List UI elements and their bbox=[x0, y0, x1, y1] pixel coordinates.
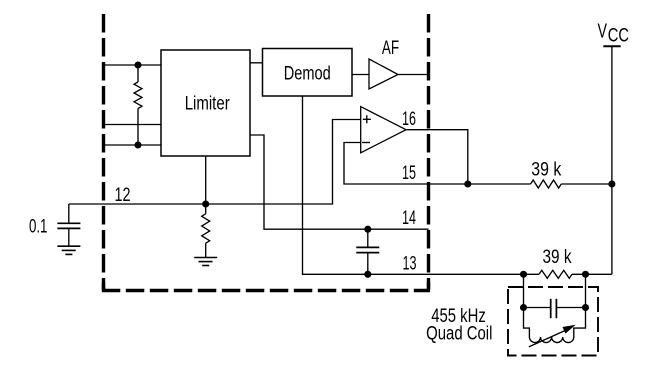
wire pin 12 to op-amp + input bbox=[69, 120, 361, 205]
wire input top bbox=[104, 64, 162, 66]
svg-text:14: 14 bbox=[402, 207, 416, 229]
svg-text:0.1: 0.1 bbox=[29, 215, 48, 237]
inductor L1 branch bbox=[524, 308, 530, 338]
node dot 16-15 bbox=[464, 180, 471, 187]
op-amp minus bbox=[362, 142, 370, 144]
quad coil dashed box bbox=[508, 287, 598, 356]
wire Limiter to Demod bbox=[250, 62, 263, 64]
resistor R3 39k (top) bbox=[531, 180, 562, 188]
svg-text:CC: CC bbox=[608, 25, 629, 47]
svg-text:16: 16 bbox=[402, 108, 416, 130]
node dot C2 bottom bbox=[364, 271, 371, 278]
AF amplifier triangle bbox=[369, 59, 398, 89]
wire AF output bbox=[398, 74, 429, 76]
ground under C1 bbox=[57, 246, 80, 254]
wire quad left branch bbox=[524, 274, 551, 307]
wire op-amp minus input from pin 15 bbox=[344, 143, 531, 185]
wire Limiter to pin 14 bbox=[250, 135, 429, 229]
resistor R2 bbox=[202, 214, 210, 243]
wire op-amp output pin 16 bbox=[406, 130, 468, 184]
wire Demod bottom to pin 13 bbox=[303, 96, 540, 274]
node dot quad left bbox=[520, 271, 527, 278]
node dot C3 left bbox=[520, 304, 527, 311]
node dot bottom bbox=[134, 141, 141, 148]
svg-text:V: V bbox=[598, 19, 608, 42]
node dot top bbox=[134, 61, 141, 68]
wire quad right branch bbox=[556, 274, 585, 307]
resistor R1 bbox=[134, 82, 142, 109]
Vcc supply bbox=[611, 46, 613, 274]
node dot C3 right bbox=[582, 304, 589, 311]
IC dashed box bbox=[102, 14, 430, 291]
svg-text:Quad Coil: Quad Coil bbox=[426, 322, 492, 344]
op-amp U1 bbox=[361, 107, 406, 153]
node dot on Vcc line bbox=[608, 180, 615, 187]
wire vertical with resistor bbox=[137, 65, 139, 145]
svg-text:Limiter: Limiter bbox=[185, 92, 230, 114]
ground under R2 bbox=[194, 258, 217, 266]
node dot pin12 bbox=[202, 200, 209, 207]
inductor arrow bbox=[529, 330, 566, 347]
wire input middle bbox=[104, 124, 162, 126]
wire input bottom bbox=[104, 144, 162, 146]
svg-text:39 k: 39 k bbox=[531, 159, 561, 181]
svg-text:39 k: 39 k bbox=[543, 246, 572, 268]
Limiter block bbox=[161, 50, 250, 156]
Demod block bbox=[263, 49, 353, 97]
svg-text:AF: AF bbox=[382, 37, 399, 59]
wire R2 to ground bbox=[205, 243, 207, 257]
wire Demod to AF amp bbox=[352, 74, 369, 76]
resistor R4 39k (bottom) bbox=[539, 270, 572, 278]
svg-text:12: 12 bbox=[115, 184, 131, 206]
node dot quad right bbox=[582, 271, 589, 278]
capacitor C3 bbox=[550, 299, 552, 318]
op-amp plus bbox=[363, 115, 371, 123]
capacitor C1 0.1 bbox=[68, 204, 70, 223]
svg-text:Demod: Demod bbox=[284, 62, 331, 84]
node dot C2 top bbox=[364, 226, 371, 233]
wire Limiter bottom bbox=[205, 156, 207, 214]
svg-text:13: 13 bbox=[403, 252, 417, 274]
capacitor C2 between 14 and 13 bbox=[367, 229, 369, 247]
inductor L1 coil bbox=[529, 337, 573, 343]
svg-text:15: 15 bbox=[402, 162, 416, 184]
